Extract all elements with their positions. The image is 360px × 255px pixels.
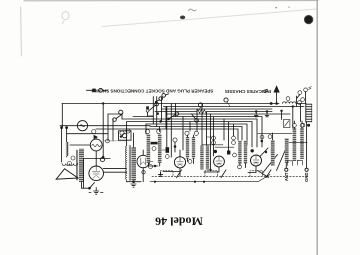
wire bus 6 bbox=[133, 117, 262, 148]
tube V5 bbox=[214, 156, 225, 167]
hang mark a bbox=[254, 110, 258, 117]
wire V2 plate right bbox=[103, 168, 126, 170]
punch hole bbox=[304, 15, 313, 24]
part label 3 bbox=[198, 103, 202, 111]
wire tube V2 top bbox=[95, 159, 97, 167]
RF coil L2 bbox=[271, 140, 275, 166]
ANT terminal bbox=[284, 163, 289, 181]
chassis symbol bbox=[264, 89, 269, 92]
part label 41 bbox=[120, 131, 124, 135]
wire x166 drop bbox=[165, 107, 167, 130]
ground symbol T1 bbox=[131, 184, 136, 187]
antenna coil L3 bbox=[285, 138, 289, 163]
part label 19 bbox=[300, 124, 304, 128]
IF transformer A left bbox=[186, 137, 189, 159]
part label pair b bbox=[232, 136, 236, 144]
junction dot bbox=[261, 140, 264, 143]
tube V4 1st audio bbox=[174, 157, 185, 168]
volume control box bbox=[119, 131, 132, 140]
junction dot bbox=[280, 110, 282, 112]
wire bus 7 bbox=[122, 119, 257, 147]
minus label bbox=[89, 192, 103, 194]
wire riser x156.7 bbox=[156, 97, 158, 127]
wire T1 primary top bbox=[126, 122, 128, 147]
wire top bus bbox=[62, 103, 271, 105]
junction dot bbox=[132, 180, 135, 183]
gang bracket small 2 bbox=[297, 160, 302, 165]
ink smudge bbox=[180, 16, 185, 20]
part label 31 bbox=[194, 131, 198, 135]
wire L2 top bbox=[272, 133, 274, 140]
wire V1 top bbox=[95, 137, 97, 138]
junction dot bbox=[275, 102, 278, 105]
wire coil tops bbox=[294, 121, 302, 128]
paper crease bbox=[102, 9, 316, 27]
wire V4 top bbox=[179, 150, 181, 157]
oscillator cluster top right bbox=[296, 87, 311, 107]
speaker cone bbox=[56, 169, 78, 180]
capacitor block 35 bbox=[166, 147, 170, 153]
wire bus 8 bbox=[127, 122, 252, 148]
part label 37 bbox=[152, 147, 156, 151]
wire x146 drop bbox=[145, 124, 147, 134]
wire drop left b bbox=[66, 128, 68, 142]
gang section box 1 bbox=[161, 171, 174, 177]
part label 0 bbox=[142, 171, 145, 174]
tube V3 rectifier bbox=[137, 155, 149, 167]
switch S1 bbox=[113, 110, 123, 121]
junction dot bbox=[270, 102, 273, 105]
wire vertical x103 bbox=[102, 104, 104, 159]
part label 43 bbox=[126, 129, 130, 133]
wire grey pair bbox=[104, 140, 127, 142]
junction dot bbox=[174, 145, 177, 148]
part label 36 bbox=[149, 165, 153, 169]
trimmer box C bbox=[284, 120, 290, 128]
chassis line bottom bbox=[150, 181, 258, 183]
speck bbox=[288, 7, 289, 8]
wire riser x161.5 bbox=[161, 98, 163, 122]
wire x233.5 bbox=[233, 124, 235, 136]
wire V1 left bbox=[70, 144, 90, 146]
output transformer core bbox=[77, 150, 78, 180]
gang section box 3 bbox=[250, 171, 263, 177]
wire x197 drop bbox=[196, 109, 198, 131]
junction dot bbox=[60, 126, 63, 129]
small smudge mark bbox=[189, 9, 197, 11]
part label 20 bbox=[301, 123, 305, 127]
part label 39 bbox=[157, 129, 161, 133]
tube socket comb bbox=[306, 103, 312, 122]
wire V6 right diag bbox=[260, 148, 268, 157]
wire humps to socket bbox=[296, 103, 306, 105]
IF transformer A right bbox=[192, 137, 195, 159]
tube V6 bbox=[251, 155, 262, 166]
wire x213.5 bbox=[213, 117, 215, 157]
legend socket symbol bbox=[87, 88, 108, 92]
svg-text:GND: GND bbox=[304, 173, 309, 182]
wire x183 drop bbox=[182, 117, 184, 151]
wire x190 drop bbox=[189, 122, 191, 132]
part label 30 bbox=[188, 160, 192, 164]
trimmer slash 1 bbox=[177, 170, 182, 178]
page edge line bbox=[316, 0, 318, 255]
trimmer slash 3 bbox=[266, 170, 271, 178]
antenna coil L5 bbox=[300, 128, 304, 159]
svg-text:SPEAKER PLUG AND SOCKET CONNEC: SPEAKER PLUG AND SOCKET CONNECTIONS SHOW… bbox=[91, 88, 214, 93]
wire y137 seg bbox=[207, 136, 212, 138]
part label 44 bbox=[92, 130, 96, 134]
wire IF A drops bbox=[188, 135, 194, 164]
wire V4 bottom bbox=[163, 168, 180, 176]
grid cap blob V5 bbox=[214, 150, 217, 153]
part label pair a bbox=[212, 136, 216, 144]
gang dashed link bbox=[152, 176, 307, 178]
wire lower-left line bbox=[67, 133, 109, 135]
wire trimmer drop bbox=[281, 111, 283, 120]
speaker plug symbol P2 bbox=[155, 94, 169, 104]
audio transformer T2 left winding bbox=[147, 134, 151, 163]
trimmer slash 2 bbox=[221, 170, 226, 178]
wire V5 bottom bbox=[204, 167, 219, 172]
junction dot bbox=[203, 181, 205, 183]
grid cap arrow bbox=[94, 135, 98, 139]
wire x202 bbox=[201, 104, 203, 146]
wire V3 top bbox=[142, 150, 144, 155]
part label 21 bbox=[260, 135, 264, 139]
wire x175.5 drop bbox=[175, 104, 177, 117]
wire arrow to bus bbox=[271, 103, 279, 105]
wire bus 5 bbox=[166, 113, 290, 115]
wire x175 bbox=[174, 142, 176, 152]
wire y163 right of V3 bbox=[149, 161, 153, 163]
capacitor blob 28 bbox=[227, 151, 230, 155]
part label 48 bbox=[68, 162, 72, 166]
wire bus 2 bbox=[164, 106, 305, 108]
wire y150 seg bbox=[162, 149, 166, 151]
capacitor blob tr bbox=[307, 124, 310, 127]
wire bus 9 bbox=[146, 124, 247, 145]
meter circle bbox=[77, 121, 87, 131]
tube V2 output bbox=[89, 166, 104, 181]
wire bus 3 bbox=[162, 108, 273, 110]
scan top edge bbox=[24, 0, 318, 2]
wire drop x61 to voice coil bbox=[61, 142, 63, 163]
speaker plug symbol P1 bbox=[146, 102, 158, 116]
IF transformer C right bbox=[244, 141, 247, 164]
junction dot bbox=[292, 105, 294, 107]
wire y142.5 rf bbox=[289, 142, 307, 144]
part label 32 bbox=[286, 97, 290, 101]
part label 27 bbox=[233, 153, 237, 157]
part label 25 bbox=[224, 98, 230, 106]
GND terminal bbox=[304, 122, 309, 182]
wire V1 bottom bbox=[95, 152, 97, 159]
junction dot bbox=[65, 126, 68, 129]
part label 29 bbox=[185, 131, 189, 135]
part label 22 bbox=[268, 135, 272, 139]
wire x206.5 bbox=[206, 112, 208, 146]
speck bbox=[275, 7, 277, 9]
junction dot bbox=[102, 156, 104, 158]
gang bracket small 1 bbox=[287, 161, 292, 166]
hang mark b bbox=[265, 110, 269, 117]
wire y144.5 seg bbox=[202, 144, 223, 146]
grid cap blob V6 bbox=[251, 149, 254, 152]
antenna arrow bbox=[273, 85, 279, 103]
voice coil loops bbox=[62, 164, 77, 166]
ground symbol under output tube bbox=[94, 188, 99, 195]
wire chassis to gang bbox=[258, 175, 270, 182]
wire y158 bbox=[84, 158, 111, 160]
part label 34 bbox=[165, 155, 169, 159]
junction dot bbox=[194, 181, 196, 183]
wire bus 4 bbox=[155, 111, 272, 113]
wire socket left drop bbox=[300, 104, 302, 122]
wire bus 10 bbox=[150, 127, 242, 141]
junction dot bbox=[154, 181, 156, 183]
wire x210.5 bbox=[210, 114, 212, 170]
wire left frame vertical bbox=[61, 104, 63, 128]
resistor R (bus 4) bbox=[197, 110, 207, 113]
junction dot bbox=[154, 165, 156, 167]
wire x166.8 bbox=[166, 107, 168, 148]
wire x171.3 bbox=[170, 104, 172, 158]
junction dot bbox=[209, 169, 211, 171]
gang section box 2 bbox=[205, 171, 218, 177]
IF transformer B left bbox=[200, 146, 203, 170]
antenna coil L4 bbox=[293, 128, 297, 161]
tuning diag 2 bbox=[277, 150, 286, 171]
wire V3 bottom bbox=[142, 168, 144, 182]
wire x224 bbox=[223, 119, 225, 140]
wire y147 seg bbox=[215, 146, 234, 148]
junction dot bbox=[102, 102, 104, 104]
antenna choke humps bbox=[283, 102, 297, 104]
wire IF C bottoms bbox=[240, 164, 246, 168]
scan left fold line bbox=[20, 7, 23, 56]
wire x228.5 bbox=[228, 122, 230, 153]
wire V2 grid right bbox=[104, 171, 127, 173]
junction dot bbox=[265, 151, 267, 153]
wire drop left a bbox=[61, 128, 63, 142]
wire y133 rf bbox=[258, 132, 292, 134]
wire switch box bbox=[108, 114, 122, 126]
svg-text:INDICATES CHASSIS: INDICATES CHASSIS bbox=[225, 89, 271, 94]
wire vertical x113 bbox=[112, 119, 114, 141]
ground symbol V4 bbox=[158, 172, 162, 176]
part label 49 bbox=[71, 156, 75, 160]
part label 33 bbox=[173, 138, 177, 142]
wire bus 11 bbox=[96, 129, 238, 140]
tube V1 detector bbox=[90, 139, 102, 151]
faint pencil circle bbox=[62, 12, 69, 24]
power transformer T1 bbox=[125, 146, 136, 181]
wire T2 bottoms bbox=[148, 163, 159, 166]
wire transformer bottom bbox=[82, 182, 90, 188]
audio transformer T2 right winding bbox=[158, 134, 162, 163]
IF transformer C left bbox=[238, 141, 241, 164]
svg-text:Model 46: Model 46 bbox=[155, 214, 203, 228]
wire dot to tube bbox=[90, 183, 95, 189]
junction dot bbox=[88, 187, 91, 190]
tuning diag 1 bbox=[263, 155, 278, 173]
part label 18 bbox=[293, 124, 297, 128]
wire osc drop bbox=[292, 107, 294, 129]
speaker plug symbol P4 bbox=[192, 114, 199, 122]
field coil L1 bbox=[67, 142, 69, 157]
output transformer winding bbox=[79, 149, 84, 183]
wire riser x153.3 bbox=[152, 97, 154, 125]
wire vertical x108 lower bbox=[107, 126, 109, 141]
wire V6 bottom bbox=[248, 166, 256, 173]
part label 46 bbox=[100, 157, 104, 161]
wire T1 sec top bbox=[133, 133, 135, 147]
wire diag 3 bbox=[258, 171, 269, 178]
part label 24 bbox=[238, 165, 242, 169]
wire x159.5 drop bbox=[159, 127, 161, 132]
IF transformer B right bbox=[206, 146, 209, 170]
part label 38 bbox=[145, 129, 149, 133]
wire meter line bbox=[60, 125, 150, 127]
wire T1 bottom bbox=[127, 181, 141, 182]
T2 core bar bbox=[151, 142, 158, 145]
part label 40 bbox=[106, 139, 110, 143]
speaker plug symbol P3 bbox=[156, 112, 178, 123]
wire x83 drop bbox=[83, 159, 85, 189]
